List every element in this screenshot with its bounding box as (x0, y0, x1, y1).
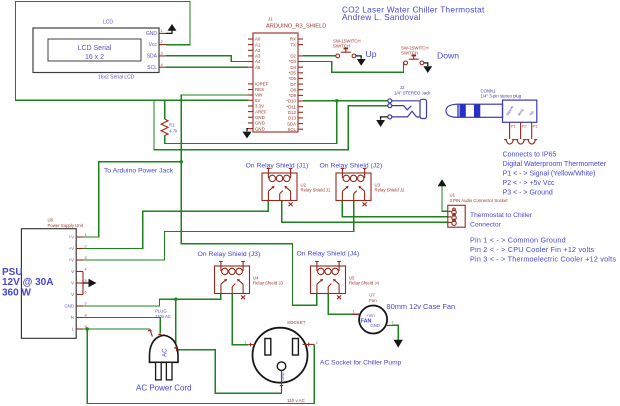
svg-text:V: V (71, 292, 74, 297)
wire AC line branch to socket right terminal (87, 329, 314, 404)
svg-text:1/4" STEREO Jack: 1/4" STEREO Jack (394, 91, 431, 96)
svg-text:LCD Serial: LCD Serial (78, 45, 112, 52)
svg-text:V: V (71, 281, 74, 286)
svg-text:U1: U1 (450, 193, 456, 198)
svg-text:On Relay Shield (J2): On Relay Shield (J2) (320, 162, 383, 169)
svg-text:Connects to IP65: Connects to IP65 (503, 151, 557, 158)
plug pin 1 (top) (158, 333, 162, 336)
svg-text:Connector: Connector (470, 222, 502, 229)
svg-text:Down: Down (437, 50, 459, 60)
svg-text:4.7k: 4.7k (169, 129, 178, 134)
plug pin 2 (left) (148, 329, 152, 337)
ground arrow at Arduino GND (243, 129, 252, 139)
socket pin GND (bottom) (280, 371, 285, 394)
svg-text:AREF: AREF (255, 109, 267, 114)
note text pin functions (470, 235, 616, 263)
svg-text:D4: D4 (290, 65, 296, 70)
svg-text:D12: D12 (288, 110, 297, 115)
fan pin 1 +Vin (352, 310, 359, 315)
relay U5 Relay Shield J4 (297, 251, 380, 300)
svg-text:A1: A1 (255, 42, 261, 47)
svg-text:GND: GND (255, 121, 265, 126)
svg-text:SDA: SDA (147, 54, 158, 60)
svg-text:P1 < - > Signal (Yellow/White): P1 < - > Signal (Yellow/White) (503, 170, 596, 177)
svg-text:AC: AC (162, 348, 169, 357)
note text chiller connector (470, 212, 533, 229)
svg-text:Relay Shield J3: Relay Shield J3 (253, 281, 283, 286)
CONN1 pin P3 (526, 122, 537, 144)
svg-text:Pin 3 < - > Thermoelectric Coo: Pin 3 < - > Thermoelectric Cooler +12 vo… (470, 254, 616, 263)
wire relay J4 pole to fan +Vin (328, 294, 359, 315)
wire SDA: LCD SDA to Arduino A4 (166, 56, 248, 62)
wire AC neutral: PSU pin8 to plug top pin (83, 318, 160, 334)
svg-text:P3 < - > Ground: P3 < - > Ground (503, 189, 553, 196)
svg-text:+V: +V (69, 235, 75, 240)
svg-text:GND: GND (281, 372, 285, 381)
svg-text:Pin 1 < - > Common Ground: Pin 1 < - > Common Ground (470, 235, 566, 244)
svg-text:80mm 12v Case Fan: 80mm 12v Case Fan (387, 302, 456, 311)
LCD module LCD1 (33, 19, 159, 80)
LCD pin 2 Vcc (159, 39, 166, 44)
svg-text:16x2 Serial LCD: 16x2 Serial LCD (98, 74, 135, 80)
wire D3 to switch SW2 (303, 62, 404, 73)
relay U4 Relay Shield J3 (198, 251, 284, 299)
wire AC ground branch to plug ground pin (175, 299, 177, 347)
ground arrow at fan GND (394, 340, 403, 348)
wire plug ground to socket ground (177, 350, 282, 394)
svg-text:3 PIN Audio Connector Socket: 3 PIN Audio Connector Socket (450, 198, 509, 203)
svg-text:SDA: SDA (287, 121, 296, 126)
switch SW1 (Up) (333, 39, 361, 58)
wire U1 pin1 to supply arrow (442, 186, 448, 211)
svg-text:110v AC: 110v AC (155, 314, 171, 319)
svg-text:ARDUINO_R3_SHIELD: ARDUINO_R3_SHIELD (266, 23, 326, 29)
ground arrow at LCD GND (166, 24, 177, 33)
wire SCL: LCD SCL to Arduino A5 (166, 66, 248, 68)
svg-text:360 W: 360 W (2, 287, 31, 298)
svg-text:SOCKET: SOCKET (287, 320, 306, 325)
svg-text:P3: P3 (533, 125, 538, 129)
note text thermometer connection (503, 151, 607, 196)
junction VIN/12V tee (180, 160, 183, 163)
svg-text:R1: R1 (169, 123, 175, 128)
svg-text:4: 4 (85, 268, 87, 272)
svg-text:Andrew L. Sandoval: Andrew L. Sandoval (342, 13, 421, 22)
wire AC ground net: PSU pin7 to relay J3 left contact (83, 294, 221, 307)
svg-text:1/4" 3-pin stereo plug: 1/4" 3-pin stereo plug (481, 94, 522, 99)
svg-text:Digital Waterproom Thermometer: Digital Waterproom Thermometer (503, 161, 607, 168)
supply arrow at U1 pin1 (438, 179, 447, 186)
svg-text:SCL: SCL (287, 127, 296, 132)
svg-text:Relay Shield J1: Relay Shield J1 (301, 188, 331, 193)
svg-text:*D10: *D10 (286, 99, 296, 104)
fan pin 2 GND (387, 321, 394, 326)
supply arrow right at PSU -V (83, 279, 97, 288)
svg-text:AC Socket for Chiller Pump: AC Socket for Chiller Pump (320, 360, 402, 367)
ground arrow at SW2 (423, 63, 432, 73)
CONN1 pin P1 (504, 122, 515, 144)
svg-text:2: 2 (392, 321, 394, 325)
wire signal: R1 bottom to D10 net (165, 101, 337, 144)
svg-text:Vcc: Vcc (149, 42, 158, 48)
svg-text:1: 1 (353, 310, 355, 314)
svg-text:SCL: SCL (147, 65, 157, 71)
wire relay J1 pole to U1 pin3 (282, 201, 448, 223)
title text (342, 5, 485, 22)
svg-text:*D5: *D5 (289, 71, 297, 76)
connector CONN1 stereo plug drawing (446, 88, 537, 122)
wire relay J1 left contact to PSU pin2 (83, 201, 268, 249)
svg-text:Relay Shield J2: Relay Shield J2 (375, 188, 405, 193)
wire 5V branch to stereo jack ring (154, 100, 388, 150)
LCD pin 3 SDA (159, 51, 166, 56)
svg-text:On Relay Shield (J4): On Relay Shield (J4) (297, 251, 360, 258)
svg-text:1: 1 (245, 341, 247, 345)
junction signal tee (335, 99, 338, 102)
svg-text:1: 1 (85, 233, 87, 237)
svg-text:D2: D2 (290, 54, 296, 59)
svg-text:5V: 5V (255, 98, 260, 103)
svg-text:D8: D8 (290, 87, 296, 92)
socket pin L (right) (303, 341, 318, 346)
svg-text:Relay Shield J4: Relay Shield J4 (349, 281, 379, 286)
svg-text:P2: P2 (522, 125, 527, 129)
svg-text:P1: P1 (511, 125, 516, 129)
svg-text:*D11: *D11 (287, 104, 297, 109)
wire 12V branch to relay J4 left contact (181, 162, 317, 305)
svg-text:*D9: *D9 (289, 93, 297, 98)
wire signal: Arduino D10 to jack tip (303, 100, 388, 102)
relay U2 Relay Shield J1 (246, 162, 331, 206)
svg-text:2: 2 (85, 245, 87, 249)
LCD pin 1 GND (159, 28, 166, 33)
fan U7 80mm case fan (359, 293, 387, 334)
svg-text:To Arduino Power Jack: To Arduino Power Jack (104, 167, 174, 174)
junction AC ground tee (174, 298, 177, 301)
ground arrow at SW1 (356, 56, 366, 66)
svg-text:GND: GND (255, 115, 265, 120)
svg-text:J1: J1 (268, 17, 273, 22)
svg-text:AC Power Cord: AC Power Cord (136, 384, 192, 393)
wire fan GND to ground arrow (392, 325, 398, 339)
socket pin N (left) (245, 341, 255, 347)
junction AC line tee (86, 327, 89, 330)
svg-text:Thermostat to Chiller: Thermostat to Chiller (470, 212, 533, 219)
svg-text:GND: GND (64, 304, 74, 309)
AC plug PLUG 110v AC (150, 309, 179, 380)
resistor R1 4.7k (161, 119, 178, 136)
svg-text:A5: A5 (255, 65, 261, 70)
svg-text:GND: GND (146, 31, 158, 37)
power supply U6 (21, 218, 86, 339)
wire relay J2 pole to PSU pin3 (83, 201, 354, 261)
svg-text:D7: D7 (290, 82, 296, 87)
wire relay J3 pole to socket left terminal (232, 294, 248, 345)
svg-text:110 v AC: 110 v AC (287, 398, 306, 403)
svg-text:RES: RES (255, 87, 264, 92)
svg-text:P2 < - > +5v Vcc: P2 < - > +5v Vcc (503, 180, 555, 187)
CONN1 pin P2 (515, 122, 526, 144)
svg-text:IOREF: IOREF (255, 82, 269, 87)
connector J2 1/4" stereo jack (388, 85, 431, 119)
wire D2 to switch SW1 (303, 55, 336, 57)
svg-text:16 x 2: 16 x 2 (85, 54, 104, 61)
switch SW2 (Down) (401, 46, 429, 65)
svg-text:3: 3 (85, 256, 87, 260)
svg-text:A3: A3 (255, 54, 261, 59)
svg-text:TX: TX (290, 42, 296, 47)
AC socket SOCKET (253, 320, 308, 403)
svg-text:GND: GND (255, 126, 265, 131)
svg-text:Pin 2 < - > CPU Cooler Fin +12: Pin 2 < - > CPU Cooler Fin +12 volts (470, 245, 595, 254)
svg-text:Fan: Fan (369, 298, 377, 303)
svg-text:U6: U6 (48, 218, 54, 223)
LCD pin 4 SCL (159, 62, 166, 67)
relay U3 Relay Shield J2 (320, 162, 405, 206)
svg-text:*D3: *D3 (289, 59, 297, 64)
wire 5V net: LCD Vcc loop to Arduino 5V (16, 2, 249, 101)
connector U1 3 pin audio socket (448, 193, 509, 228)
svg-text:+V: +V (69, 258, 75, 263)
svg-text:U7: U7 (369, 293, 375, 298)
op-amp: Arduino R3 shield J1 (248, 17, 326, 133)
label PSU rating (2, 267, 53, 299)
svg-text:On Relay Shield (J1): On Relay Shield (J1) (246, 162, 309, 169)
svg-text:N: N (71, 315, 74, 320)
svg-text:V: V (71, 269, 74, 274)
svg-text:*D6: *D6 (289, 76, 297, 81)
svg-text:On Relay Shield (J3): On Relay Shield (J3) (198, 251, 261, 258)
svg-text:GND: GND (370, 323, 380, 328)
svg-text:J2: J2 (400, 85, 405, 90)
wire relay J2 left contact to U1 pin2 (342, 201, 447, 217)
PSU pins 4-6 tie (82, 272, 84, 295)
svg-text:+Vin: +Vin (366, 313, 375, 318)
svg-text:7: 7 (85, 302, 87, 306)
svg-text:+V: +V (69, 246, 75, 251)
svg-text:D13: D13 (288, 116, 297, 121)
svg-text:A4: A4 (255, 59, 261, 64)
svg-text:Up: Up (366, 49, 377, 59)
svg-text:2: 2 (316, 341, 318, 345)
svg-text:A2: A2 (255, 48, 261, 53)
wire VIN net: PSU pin1 to Arduino VIN (83, 95, 248, 237)
svg-text:LCD: LCD (103, 19, 113, 25)
svg-text:CONN1: CONN1 (481, 88, 497, 93)
plug pin 3 (ground, right) (174, 347, 178, 352)
svg-text:PLUG: PLUG (155, 309, 167, 314)
svg-text:RX: RX (290, 37, 296, 42)
svg-text:Power Supply Unit: Power Supply Unit (48, 223, 84, 228)
wire AC line: PSU pin9 to plug left pin (83, 328, 150, 330)
svg-text:9: 9 (85, 325, 87, 329)
svg-text:3.3V: 3.3V (255, 104, 264, 109)
svg-text:A0: A0 (255, 37, 261, 42)
svg-text:6: 6 (85, 291, 87, 295)
svg-text:8: 8 (85, 314, 87, 318)
wire 5V branch to R1 top (164, 100, 166, 119)
svg-text:VIN: VIN (255, 93, 262, 98)
ground arrow at jack sleeve (376, 117, 388, 127)
